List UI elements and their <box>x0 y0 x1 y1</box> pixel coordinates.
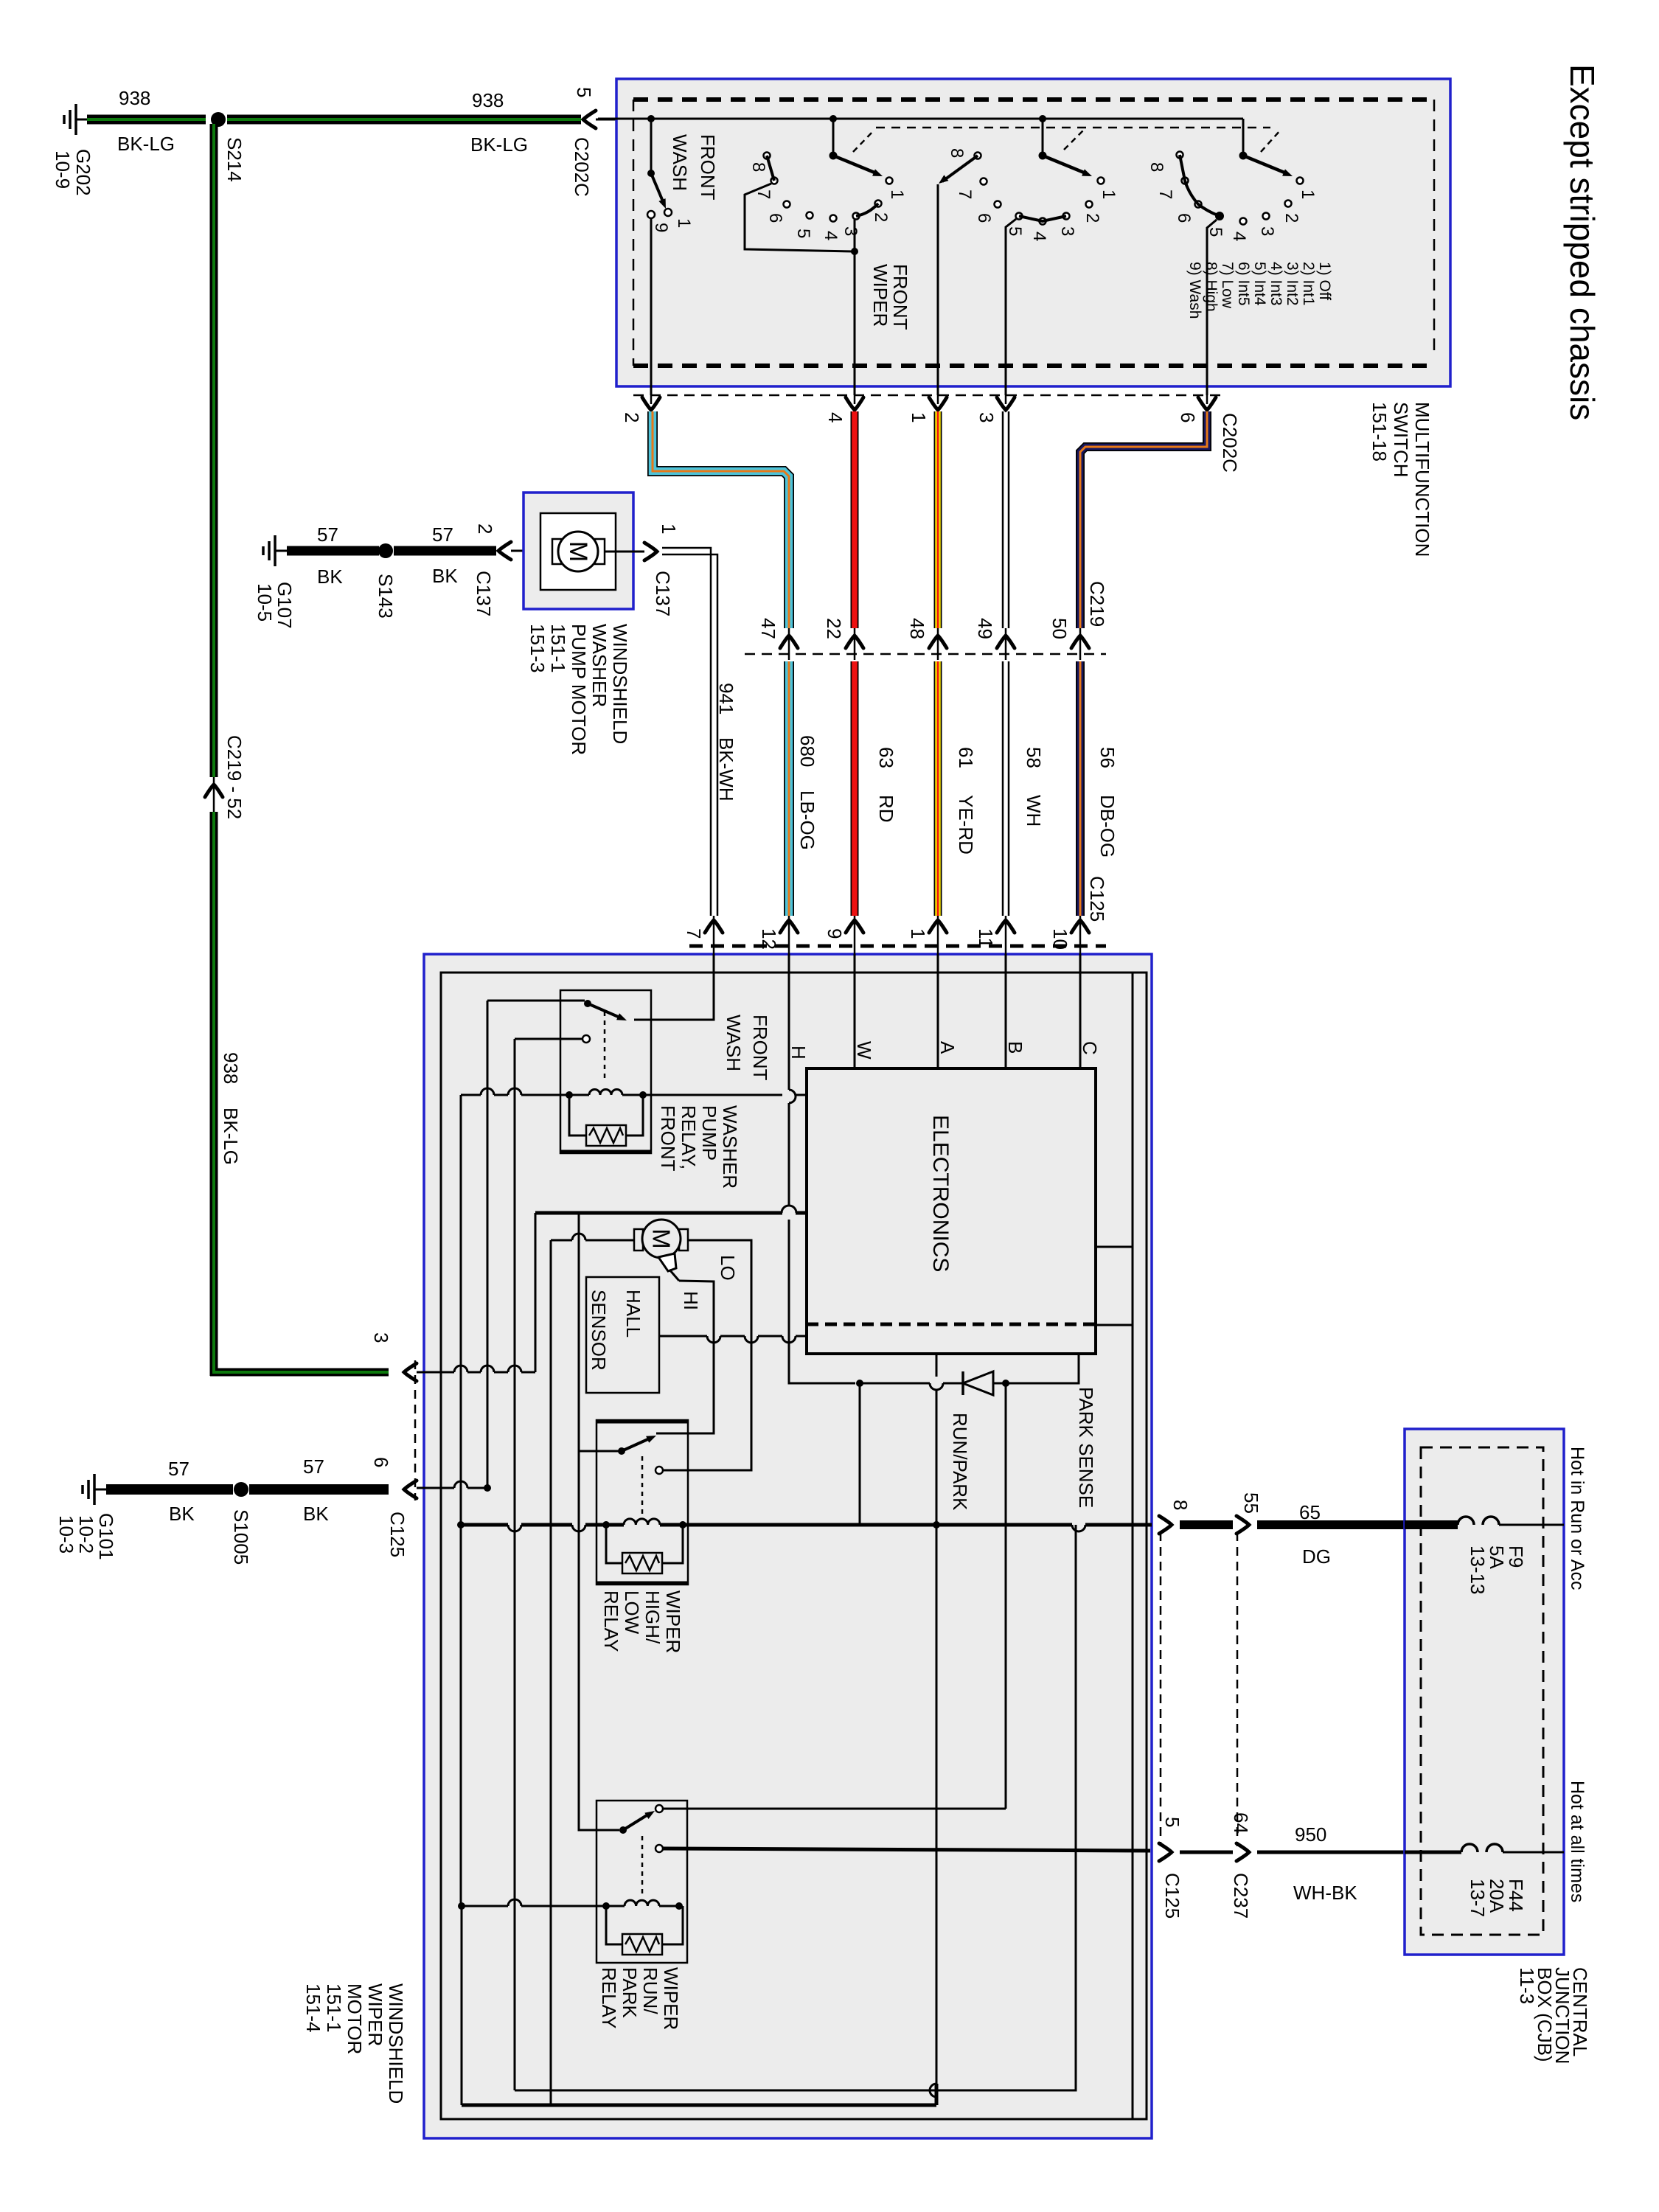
svg-text:2: 2 <box>1281 213 1301 223</box>
svg-text:5: 5 <box>1206 227 1225 237</box>
svg-text:47: 47 <box>757 618 779 639</box>
svg-text:FRONT: FRONT <box>697 134 719 201</box>
windshield washer pump motor box <box>524 493 633 609</box>
wire 65 DG <box>1257 1520 1405 1529</box>
C125 pin 7 arrow <box>705 920 723 933</box>
svg-text:WASH: WASH <box>723 1015 745 1071</box>
connector C219-52 arrow <box>205 785 223 797</box>
windshield wiper motor box <box>424 954 1152 2138</box>
connector C125 dashed line (top) <box>689 945 1106 948</box>
svg-text:C125: C125 <box>1161 1873 1183 1919</box>
electronics box <box>807 1068 1096 1354</box>
svg-text:10-9: 10-9 <box>52 150 74 189</box>
wire 56 DB-OG lower <box>1076 661 1085 916</box>
svg-text:2: 2 <box>1082 213 1102 223</box>
wiper high/low relay pivot <box>618 1447 625 1455</box>
wiper run/park relay pivot <box>619 1826 627 1834</box>
wire 680 LB-OG lower <box>784 661 794 916</box>
svg-text:C125: C125 <box>386 1512 408 1557</box>
svg-text:C137: C137 <box>652 571 674 616</box>
connector C219 dashed line <box>745 653 1106 655</box>
wire 938 BK-LG vertical upper <box>210 124 218 777</box>
motor common thick line <box>535 1211 782 1215</box>
front wiper switch 3 blade <box>1243 156 1284 173</box>
front wiper switch 1 link 8-7 <box>767 156 774 181</box>
C125 pin 12 arrow <box>780 920 798 933</box>
svg-text:4: 4 <box>1229 232 1249 241</box>
svg-text:BK-LG: BK-LG <box>117 133 175 155</box>
wire 63 RD upper <box>851 411 859 628</box>
wire switch2-5 to pin 3 <box>1006 219 1016 395</box>
svg-text:Except stripped chassis: Except stripped chassis <box>1563 64 1601 420</box>
svg-text:8: 8 <box>748 162 768 172</box>
wire washer relay pivot feed <box>487 1000 585 1002</box>
ground G202 <box>76 119 88 121</box>
front wiper switch 3 chain 8-7-6-5 <box>1180 155 1220 216</box>
svg-text:BK: BK <box>303 1503 329 1525</box>
washer pump relay link dashed <box>604 1012 606 1080</box>
svg-text:HIGH/: HIGH/ <box>641 1590 664 1644</box>
wire run/park branch <box>860 1383 933 1525</box>
svg-text:YE-RD: YE-RD <box>955 795 977 855</box>
washer pump relay NO terminal <box>582 1035 590 1043</box>
wire H run line <box>789 1379 855 1383</box>
wire H (680 continuation) <box>788 954 790 1090</box>
svg-text:DB-OG: DB-OG <box>1096 795 1119 858</box>
svg-text:SWITCH: SWITCH <box>1390 402 1412 478</box>
svg-text:4: 4 <box>1029 232 1049 241</box>
svg-text:49: 49 <box>974 618 996 639</box>
svg-text:LO: LO <box>717 1255 739 1281</box>
wire 61 YE-RD lower <box>934 661 942 916</box>
ground G101 <box>94 1489 106 1491</box>
wire 57 BK segment 1 (G101) <box>106 1484 233 1495</box>
svg-text:151-4: 151-4 <box>302 1983 324 2033</box>
svg-text:61: 61 <box>955 747 977 768</box>
front wiper switch 1 wire 3 to junction <box>854 220 856 251</box>
switch dashed border left <box>633 100 635 366</box>
wire park sense vertical <box>1132 973 1134 2119</box>
svg-text:10-3: 10-3 <box>55 1515 77 1554</box>
C219 pin 50 arrow <box>1071 636 1089 648</box>
svg-text:6: 6 <box>765 213 785 223</box>
front wiper switch 3 stub <box>1242 119 1245 154</box>
svg-text:LOW: LOW <box>621 1590 643 1635</box>
front wiper switch 2 terminals <box>975 153 981 159</box>
front wiper switch 1 wire from 7 <box>745 184 853 251</box>
wire 680 LB-OG upper <box>653 411 789 628</box>
svg-text:50: 50 <box>1048 618 1071 639</box>
svg-text:WASH: WASH <box>669 134 691 191</box>
washer pump relay pivot <box>584 1000 591 1007</box>
svg-text:6: 6 <box>1177 412 1199 422</box>
svg-text:HALL: HALL <box>622 1290 644 1338</box>
C237 pin 55 arrow <box>1237 1516 1249 1534</box>
switch dashed border top <box>633 97 1430 102</box>
C125 pin 11 arrow <box>997 920 1015 933</box>
wire 57 BK segment 1 (G107) <box>287 546 379 556</box>
connector C125 left dashed line <box>414 1360 417 1500</box>
svg-text:8) High: 8) High <box>1203 262 1220 312</box>
wire bottom B <box>515 1525 1076 2090</box>
wire 938 BK-LG segment 2 <box>227 115 581 125</box>
svg-text:3: 3 <box>1057 226 1077 236</box>
svg-text:22: 22 <box>823 618 845 639</box>
washer pump relay box <box>560 990 651 1153</box>
svg-text:3: 3 <box>1257 226 1277 236</box>
wiper run/park relay coil <box>625 1900 659 1906</box>
svg-text:WINDSHIELD: WINDSHIELD <box>609 624 631 744</box>
C125 pin 8 arrow <box>1159 1516 1172 1534</box>
wiper high/low relay resistor <box>606 1525 622 1563</box>
wiper high/low relay box <box>597 1420 688 1585</box>
front wiper switch 1 stub <box>829 115 837 122</box>
svg-text:2) Int1: 2) Int1 <box>1300 262 1317 306</box>
wire 941 BK-WH <box>662 548 711 916</box>
wiper run/park relay box <box>597 1801 687 1963</box>
svg-text:A: A <box>936 1041 959 1054</box>
svg-text:1) Off: 1) Off <box>1316 262 1333 300</box>
svg-text:WINDSHIELD: WINDSHIELD <box>385 1983 407 2104</box>
svg-text:2: 2 <box>474 524 496 534</box>
front wiper switch 1 blade <box>833 156 874 173</box>
svg-text:5: 5 <box>1005 226 1025 236</box>
wire rail V3 <box>514 1039 516 2090</box>
svg-text:DG: DG <box>1302 1545 1331 1568</box>
front wiper switch 2 stub <box>1039 115 1046 122</box>
svg-text:3) Int2: 3) Int2 <box>1284 262 1301 306</box>
svg-text:C: C <box>1079 1041 1101 1055</box>
svg-text:4: 4 <box>824 412 846 422</box>
wiper motor inner border <box>441 973 1147 2119</box>
svg-text:BK-LG: BK-LG <box>470 133 528 156</box>
washer pump relay resistor <box>569 1095 586 1135</box>
svg-text:BK: BK <box>317 566 343 588</box>
svg-text:FRONT: FRONT <box>657 1105 679 1172</box>
C125 pin 3 arrow <box>404 1363 417 1381</box>
svg-text:55: 55 <box>1240 1492 1262 1514</box>
svg-text:11: 11 <box>975 928 997 948</box>
wire 57 BK segment 2 <box>394 546 496 556</box>
wire 63 RD lower <box>851 661 859 916</box>
svg-text:5: 5 <box>793 229 813 238</box>
svg-text:7) Low: 7) Low <box>1219 262 1236 309</box>
connector C237 dashed line <box>1237 1532 1239 1846</box>
svg-text:S143: S143 <box>375 574 397 619</box>
wire motor to pin 1 <box>605 551 644 553</box>
wire 950 WH-BK <box>1257 1851 1405 1854</box>
svg-text:680: 680 <box>796 735 818 767</box>
wiper run/park relay resistor <box>606 1906 622 1944</box>
svg-text:WH: WH <box>1023 795 1045 827</box>
svg-text:57: 57 <box>432 524 453 546</box>
fuse F9 <box>1458 1517 1474 1525</box>
front wash switch blade <box>651 173 663 201</box>
wire washer relay NO feed <box>515 1038 582 1040</box>
C202C pin 2 arrow <box>642 397 660 410</box>
washer pump relay blade <box>588 1004 622 1018</box>
svg-text:6: 6 <box>370 1457 392 1467</box>
svg-text:BK: BK <box>432 565 458 587</box>
svg-text:56: 56 <box>1096 747 1119 768</box>
svg-text:MULTIFUNCTION: MULTIFUNCTION <box>1411 402 1433 557</box>
front wiper switch 3 terminals <box>1177 152 1183 159</box>
svg-text:G202: G202 <box>72 149 94 196</box>
washer pump motor M <box>558 532 598 571</box>
svg-text:9: 9 <box>824 928 846 939</box>
front wiper switch 1 terminals <box>764 153 771 159</box>
washer pump motor inner box <box>540 513 616 590</box>
front wiper switch 2 link 5-4-3 <box>1019 216 1066 221</box>
svg-text:WIPER: WIPER <box>364 1983 386 2046</box>
electronics stub lower right <box>1096 1324 1133 1326</box>
svg-text:RUN/: RUN/ <box>639 1967 661 2014</box>
wire 950 into CJB <box>1405 1851 1461 1854</box>
splice S214 <box>211 112 226 127</box>
multifunction switch box <box>616 79 1450 386</box>
wire ground pin3 run <box>417 1371 454 1374</box>
wire rail V6 (relay pivots) <box>578 1213 580 1451</box>
C237 pin 64 arrow <box>1237 1843 1249 1861</box>
wire B into electronics <box>1005 954 1007 1068</box>
svg-text:PUMP: PUMP <box>698 1105 720 1161</box>
svg-text:5: 5 <box>1161 1817 1183 1827</box>
wire 61 YE-RD upper <box>934 411 942 628</box>
svg-text:9) Wash: 9) Wash <box>1186 262 1203 319</box>
svg-text:10: 10 <box>1049 928 1071 950</box>
svg-text:Hot in Run or Acc: Hot in Run or Acc <box>1567 1447 1587 1590</box>
wire motor LO to relay NC <box>662 1240 751 1470</box>
svg-text:WIPER: WIPER <box>869 264 891 327</box>
C125 pin 10 arrow <box>1071 920 1089 933</box>
C202C pin 1 arrow <box>929 397 947 410</box>
svg-text:1: 1 <box>887 189 907 199</box>
svg-text:FRONT: FRONT <box>889 264 911 330</box>
wire coil line to electronics <box>461 1094 481 1096</box>
svg-text:2: 2 <box>871 212 891 222</box>
CJB dashed border <box>1421 1447 1543 1935</box>
wire motor left bracket <box>551 1239 572 1242</box>
wire 58 WH upper <box>1002 411 1004 628</box>
svg-text:7: 7 <box>683 928 705 939</box>
C125 pin 9 arrow <box>846 920 863 933</box>
wire ground pin6 run <box>417 1487 454 1489</box>
connector C202C dashed line <box>633 394 1224 397</box>
wiper run/park relay NO terminal <box>655 1805 663 1812</box>
C219 pin 47 arrow <box>780 636 798 648</box>
wire pin5 to switch bus <box>596 119 651 121</box>
svg-text:4: 4 <box>821 231 841 240</box>
connector C202C pin 5 arrow <box>583 111 596 128</box>
front wash switch pivot <box>647 115 655 122</box>
diode <box>963 1371 993 1395</box>
wire B below electronics <box>1005 1383 1007 1809</box>
svg-text:WIPER: WIPER <box>662 1590 684 1653</box>
svg-text:1: 1 <box>1099 189 1119 199</box>
svg-text:57: 57 <box>317 524 338 546</box>
svg-text:C125: C125 <box>1086 876 1108 922</box>
washer pump relay coil <box>566 1091 573 1099</box>
svg-text:Hot at all times: Hot at all times <box>1567 1781 1587 1902</box>
svg-text:C137: C137 <box>473 571 495 616</box>
svg-text:151-3: 151-3 <box>526 624 549 673</box>
C202C pin 6 arrow <box>1198 397 1216 410</box>
wire switch2-8 to pin 1 <box>937 184 939 395</box>
svg-text:151-1: 151-1 <box>323 1983 345 2033</box>
mechanical linkage dashed line <box>876 127 1270 129</box>
C202C pin 4 arrow <box>846 397 863 410</box>
svg-text:S214: S214 <box>223 137 246 182</box>
svg-text:8: 8 <box>947 148 967 158</box>
svg-text:M: M <box>648 1228 675 1249</box>
svg-text:6) Int5: 6) Int5 <box>1235 262 1252 306</box>
wire park output 950 <box>663 1848 1150 1851</box>
wiper run/park relay NC terminal <box>655 1845 663 1852</box>
svg-text:151-1: 151-1 <box>547 624 569 673</box>
svg-text:1: 1 <box>907 928 929 939</box>
svg-text:941: 941 <box>715 683 737 714</box>
svg-text:FRONT: FRONT <box>749 1015 771 1081</box>
wiper motor M <box>634 1229 643 1251</box>
connector C125 dashed line (right) <box>1160 1532 1162 1846</box>
wire C into electronics <box>1079 954 1082 1068</box>
svg-text:PUMP MOTOR: PUMP MOTOR <box>568 624 590 755</box>
svg-text:1: 1 <box>674 218 694 228</box>
switch dashed border bottom <box>633 364 1430 368</box>
washer pump motor brushes <box>552 539 563 564</box>
svg-text:ELECTRONICS: ELECTRONICS <box>928 1115 953 1272</box>
svg-text:3: 3 <box>841 226 860 236</box>
svg-text:B: B <box>1004 1041 1026 1054</box>
svg-text:BK-LG: BK-LG <box>220 1107 242 1165</box>
svg-text:48: 48 <box>906 618 928 639</box>
svg-text:938: 938 <box>119 87 150 109</box>
wire motor flag to relay <box>656 1281 714 1433</box>
connector C137 pin 2 arrow <box>498 542 511 560</box>
ground G107 <box>275 550 287 552</box>
svg-text:10-5: 10-5 <box>254 583 276 622</box>
splice S1005 <box>234 1482 248 1497</box>
svg-text:6: 6 <box>974 213 994 223</box>
svg-text:C219: C219 <box>1086 581 1108 627</box>
C125 pin 6 arrow <box>404 1481 417 1498</box>
svg-text:BK: BK <box>169 1503 195 1525</box>
svg-text:SENSOR: SENSOR <box>588 1290 610 1371</box>
svg-text:PARK: PARK <box>619 1967 641 2019</box>
svg-text:13-7: 13-7 <box>1467 1879 1489 1917</box>
svg-text:57: 57 <box>168 1458 189 1480</box>
wire 65 into CJB <box>1405 1520 1458 1529</box>
svg-text:MOTOR: MOTOR <box>344 1983 366 2054</box>
C219 pin 49 arrow <box>997 636 1015 648</box>
wire switch1 to pin 4 <box>854 251 856 395</box>
wire rail V1 <box>460 1095 462 1525</box>
front wiper switch 2 blade <box>1043 156 1084 173</box>
svg-text:C202C: C202C <box>1219 413 1241 473</box>
wiper high/low relay link dashed <box>641 1456 644 1515</box>
wire rail V5 <box>550 1240 552 2105</box>
svg-text:64: 64 <box>1230 1812 1252 1834</box>
svg-text:950: 950 <box>1295 1823 1326 1846</box>
wire 56 DB-OG upper <box>1080 411 1207 628</box>
svg-text:RELAY,: RELAY, <box>678 1105 700 1169</box>
wire into washer pump motor <box>511 550 557 552</box>
wire bottom A <box>462 2104 936 2107</box>
svg-text:3: 3 <box>370 1332 392 1343</box>
svg-text:RELAY: RELAY <box>598 1967 620 2028</box>
svg-text:H: H <box>787 1046 810 1060</box>
C202C pin 3 arrow <box>997 397 1015 410</box>
svg-text:57: 57 <box>303 1455 324 1478</box>
svg-text:S1005: S1005 <box>230 1509 252 1565</box>
svg-text:LB-OG: LB-OG <box>796 790 818 850</box>
hall sensor box <box>586 1277 659 1393</box>
svg-text:10-2: 10-2 <box>75 1515 97 1554</box>
svg-text:1: 1 <box>658 524 680 534</box>
svg-text:G107: G107 <box>274 582 296 629</box>
svg-text:3: 3 <box>975 412 998 422</box>
wiper motor brush flag <box>658 1253 676 1271</box>
connector C137 pin 1 arrow <box>644 543 657 560</box>
svg-text:WASHER: WASHER <box>588 624 611 707</box>
C219 pin 22 arrow <box>846 636 863 648</box>
svg-text:8: 8 <box>1147 162 1166 172</box>
svg-text:151-18: 151-18 <box>1368 402 1391 462</box>
svg-text:1: 1 <box>1298 189 1318 199</box>
wire 938 BK-LG vertical lower <box>210 812 218 1376</box>
switch dashed border right <box>1433 100 1436 356</box>
wire 58 WH lower <box>1002 661 1004 916</box>
fuse F44 <box>1461 1844 1478 1852</box>
wire 57 BK segment 2 (G101) <box>249 1484 389 1495</box>
wire switch3-5 to pin 6 <box>1207 220 1217 395</box>
svg-text:6: 6 <box>1174 213 1194 223</box>
front wash terminal circles <box>664 209 672 216</box>
svg-text:4) Int3: 4) Int3 <box>1267 262 1284 306</box>
svg-text:938: 938 <box>472 89 504 111</box>
wiper run/park relay blade <box>623 1813 650 1830</box>
splice S143 <box>378 543 393 558</box>
wire W into electronics <box>854 954 856 1068</box>
wire 941 pin7 into box <box>634 954 714 1020</box>
wiper high/low relay NC terminal <box>655 1467 663 1474</box>
svg-text:63: 63 <box>875 747 897 768</box>
wiper run/park relay link dashed <box>641 1836 644 1895</box>
wire run/park coil feed <box>462 1905 508 1907</box>
front wiper switch 1 link 3-2 <box>856 204 878 216</box>
wiper high/low relay blade <box>622 1438 651 1451</box>
front wiper switch 2 blade 8 <box>942 156 978 181</box>
wire power feed 65 <box>461 1523 508 1527</box>
C125 pin 1 arrow <box>929 920 947 933</box>
svg-text:7: 7 <box>754 189 773 199</box>
wire A into electronics <box>937 954 939 1068</box>
svg-text:WH-BK: WH-BK <box>1293 1882 1357 1904</box>
svg-text:7: 7 <box>1155 189 1175 199</box>
svg-text:9: 9 <box>651 223 671 232</box>
svg-text:M: M <box>564 541 592 562</box>
svg-text:1: 1 <box>908 412 930 422</box>
svg-text:11-3: 11-3 <box>1516 1967 1538 2004</box>
svg-text:RUN/PARK: RUN/PARK <box>949 1413 971 1511</box>
wire 65 jumper <box>1180 1520 1233 1529</box>
svg-text:G101: G101 <box>95 1513 117 1560</box>
svg-text:58: 58 <box>1023 747 1045 768</box>
svg-text:WIPER: WIPER <box>660 1967 682 2030</box>
wire rail V4 (motor common) <box>535 1213 537 1372</box>
svg-text:C202C: C202C <box>571 137 593 197</box>
switch bus wire <box>598 118 1243 120</box>
